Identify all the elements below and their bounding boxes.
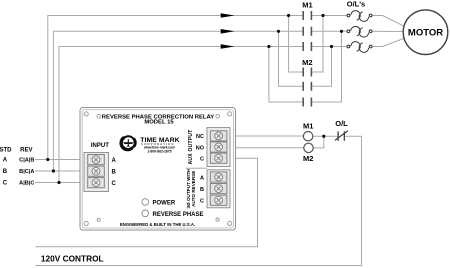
svg-text:O/L: O/L bbox=[335, 119, 348, 128]
svg-text:POWER: POWER bbox=[153, 201, 176, 207]
svg-text:REV: REV bbox=[20, 148, 32, 154]
svg-text:C|A|B: C|A|B bbox=[19, 158, 34, 164]
svg-text:M2: M2 bbox=[302, 58, 312, 67]
svg-text:B: B bbox=[112, 169, 117, 175]
svg-text:M1: M1 bbox=[302, 0, 312, 9]
svg-text:1-800-862-2875: 1-800-862-2875 bbox=[147, 149, 171, 153]
svg-text:NO: NO bbox=[196, 145, 205, 151]
svg-text:B|C|A: B|C|A bbox=[19, 169, 34, 175]
svg-text:REVERSE PHASE: REVERSE PHASE bbox=[153, 212, 204, 218]
svg-text:A: A bbox=[200, 175, 204, 181]
svg-text:INPUT: INPUT bbox=[91, 143, 109, 149]
svg-text:120V CONTROL: 120V CONTROL bbox=[41, 253, 104, 263]
svg-text:C: C bbox=[3, 181, 8, 187]
svg-text:B: B bbox=[3, 169, 8, 175]
svg-text:A: A bbox=[112, 158, 117, 164]
svg-text:NC: NC bbox=[196, 134, 204, 140]
svg-text:MOTOR: MOTOR bbox=[408, 28, 443, 39]
svg-text:A: A bbox=[3, 158, 8, 164]
svg-text:MODEL 15: MODEL 15 bbox=[144, 120, 174, 126]
svg-text:A|B|C: A|B|C bbox=[19, 181, 34, 187]
svg-text:C: C bbox=[200, 157, 204, 163]
svg-text:AUX OUTPUT: AUX OUTPUT bbox=[188, 130, 194, 165]
svg-text:AUTO REVERSE: AUTO REVERSE bbox=[191, 171, 196, 207]
svg-text:M1: M1 bbox=[303, 122, 313, 131]
svg-text:O/L's: O/L's bbox=[347, 0, 365, 8]
svg-text:B: B bbox=[200, 187, 204, 193]
svg-text:M2: M2 bbox=[303, 154, 313, 163]
svg-text:ENGINEERED & BUILT IN THE U.S.: ENGINEERED & BUILT IN THE U.S.A. bbox=[120, 222, 195, 227]
svg-text:C: C bbox=[200, 199, 204, 205]
svg-text:C: C bbox=[112, 181, 117, 187]
svg-text:STD: STD bbox=[0, 148, 12, 154]
